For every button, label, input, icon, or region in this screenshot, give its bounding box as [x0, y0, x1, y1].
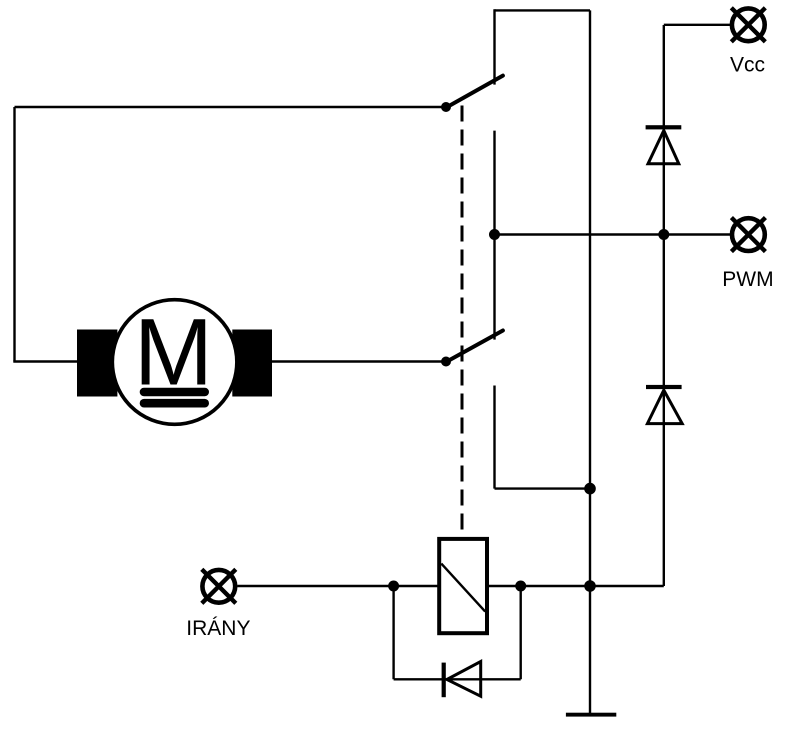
- terminal PWM: [731, 218, 765, 252]
- wire between switch1 and switch2 contacts: [493, 131, 495, 340]
- switch S1b arm: [446, 331, 503, 363]
- wire top-left horizontal: [15, 106, 447, 108]
- wire flyback bottom: [394, 678, 521, 680]
- wire Vcc horizontal: [664, 24, 731, 26]
- switch S1a arm: [446, 76, 503, 108]
- svg-text:Vcc: Vcc: [730, 54, 765, 77]
- diode D3 flyback: [442, 662, 481, 698]
- terminal Vcc: [731, 8, 765, 42]
- node PWM junction on diode branch: [658, 229, 669, 240]
- node flyback right: [515, 581, 526, 592]
- wire relay right to diode branch: [488, 585, 663, 587]
- ground: [566, 713, 616, 717]
- svg-text:IRÁNY: IRÁNY: [186, 617, 250, 640]
- motor M1: [77, 300, 272, 425]
- diode D1: [646, 125, 682, 164]
- wire switch2 lower contact: [493, 386, 495, 489]
- wire top jumper: [495, 9, 591, 11]
- svg-text:PWM: PWM: [722, 268, 773, 291]
- terminal IRANY: [202, 569, 236, 603]
- wire switch2 to main vertical: [495, 487, 591, 489]
- diode D2: [646, 385, 682, 424]
- wire flyback left vertical: [392, 586, 394, 679]
- node switch2 pivot: [441, 357, 451, 367]
- node flyback left: [388, 581, 399, 592]
- node junction main vertical: [584, 483, 596, 495]
- wire motor right to switch pivot: [270, 360, 446, 362]
- dashed mechanical link: [461, 106, 464, 531]
- wire left vertical: [13, 107, 15, 362]
- wire switch1 upper contact: [493, 9, 495, 84]
- node main vertical at relay wire: [584, 580, 596, 592]
- wire IRANY to relay: [237, 585, 437, 587]
- node PWM junction on switch line: [489, 229, 500, 240]
- wire main vertical to ground: [589, 10, 591, 714]
- node switch1 pivot: [441, 102, 451, 112]
- wire to motor left terminal: [13, 360, 80, 362]
- wire flyback right vertical: [520, 586, 522, 679]
- wire PWM horizontal: [495, 233, 731, 235]
- relay coil K1: [439, 539, 487, 633]
- wire diode branch vertical: [663, 25, 665, 586]
